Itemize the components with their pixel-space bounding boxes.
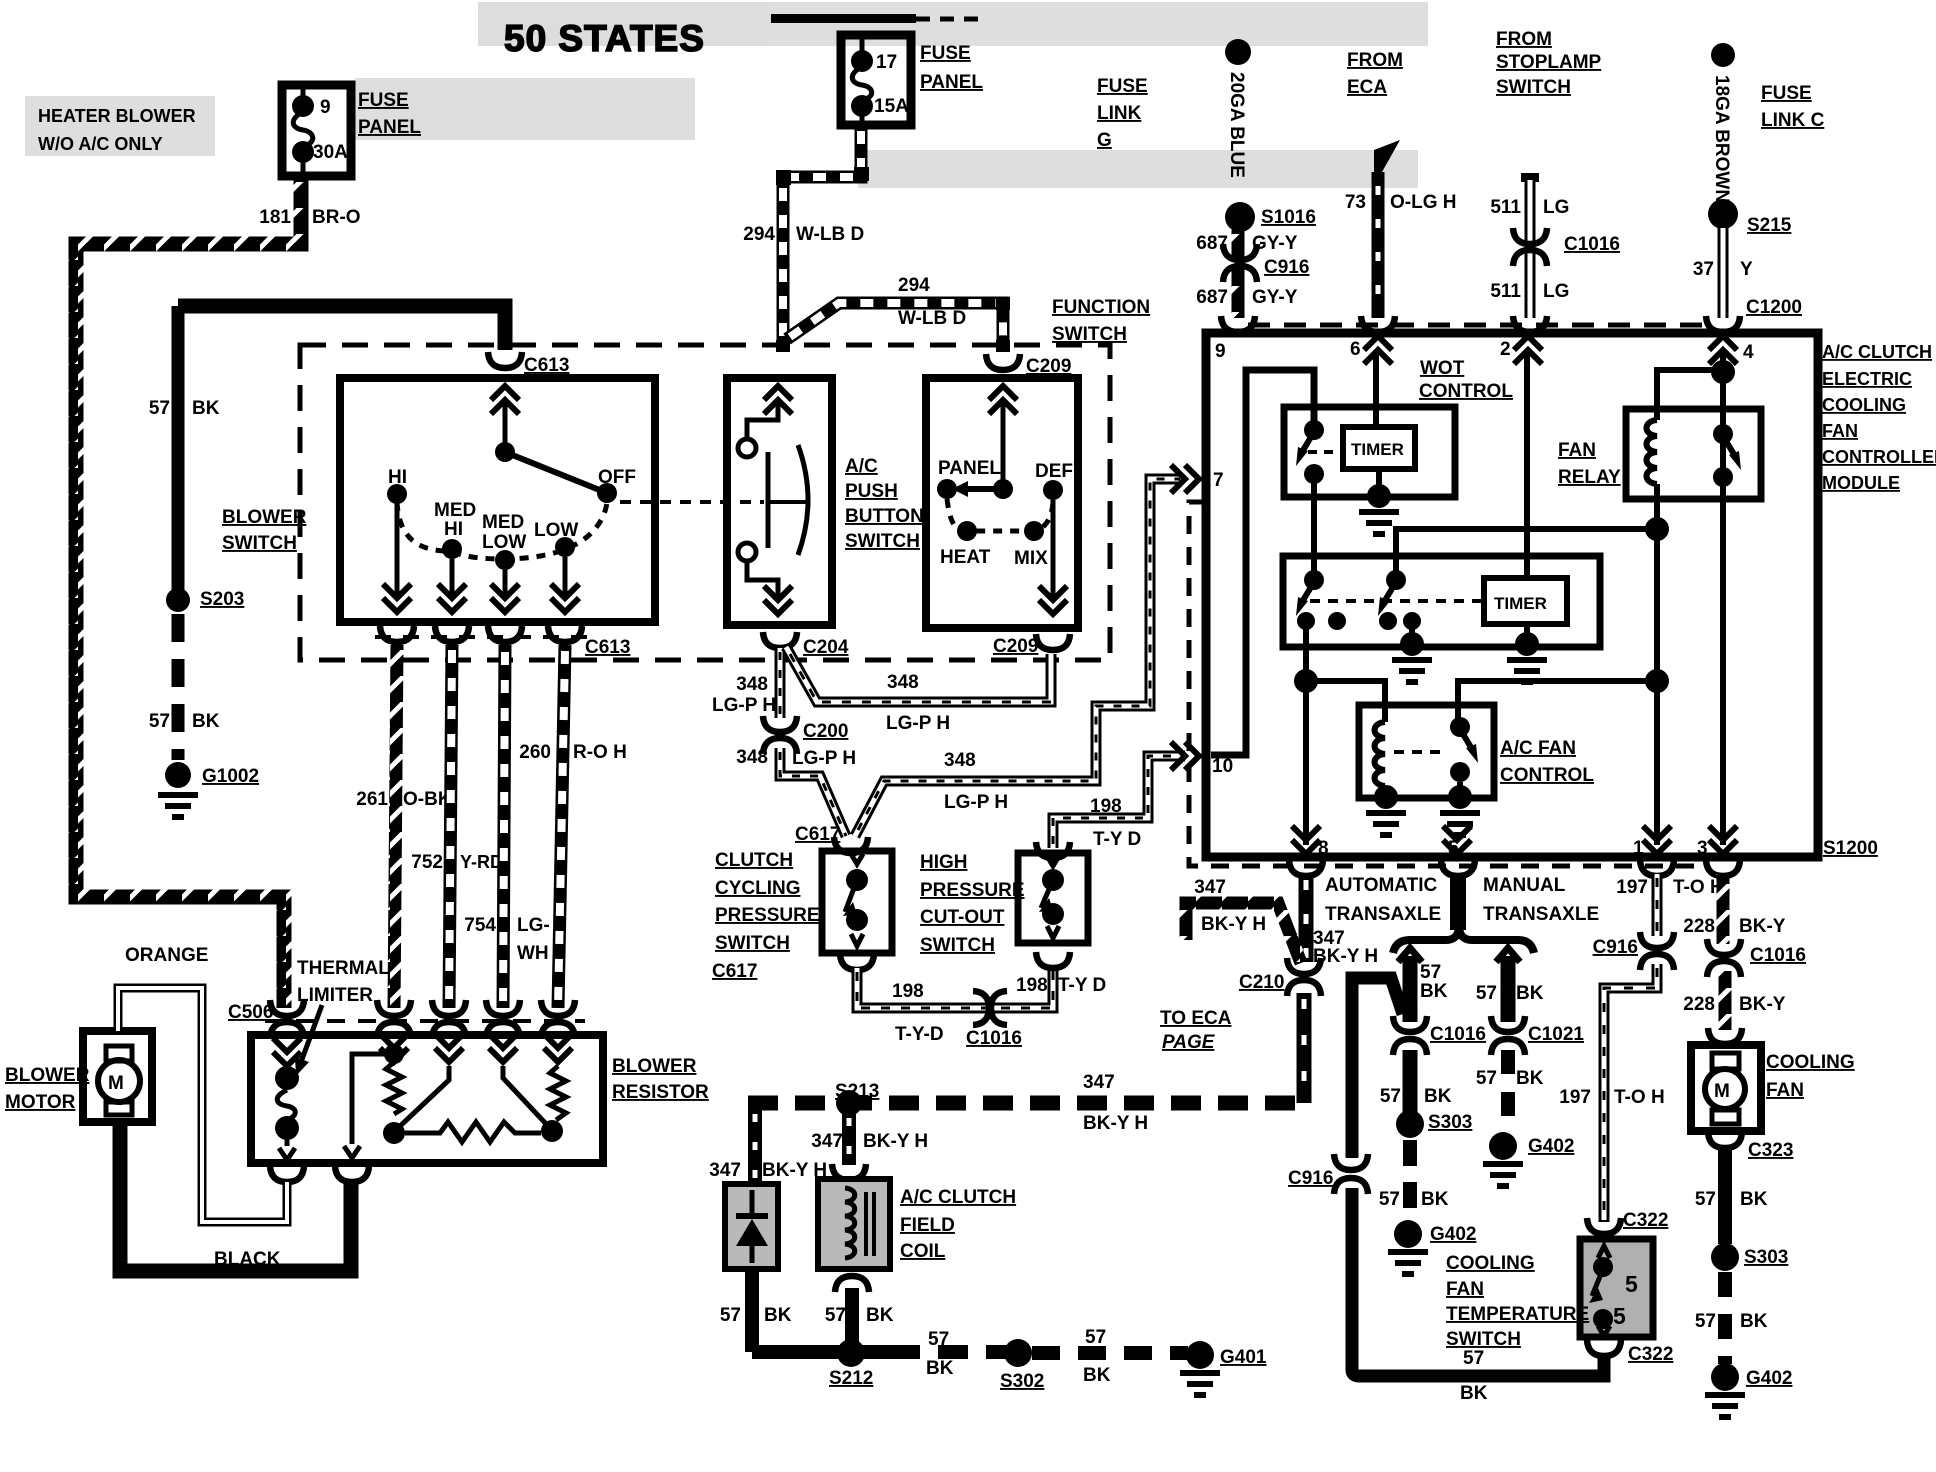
wire 511 LG from stoplamp switch to pin 2 — [1521, 173, 1539, 182]
svg-text:348: 348 — [887, 672, 919, 693]
wire 57 BK C916 to temperature switch — [1352, 1188, 1604, 1376]
svg-text:BLOWER: BLOWER — [222, 507, 307, 528]
svg-text:198: 198 — [892, 981, 924, 1002]
wire 348 LG-P H C200 to C617 split — [780, 748, 846, 836]
wire 57 BK bus from blower switch to C613 — [178, 306, 505, 350]
svg-text:511: 511 — [1490, 197, 1521, 218]
svg-text:MED: MED — [482, 512, 524, 533]
wire 348 LG-P H jumper C204 to C209 — [786, 647, 1051, 702]
connector C1016 (automatic) — [1393, 1016, 1427, 1032]
svg-text:LG-P H: LG-P H — [712, 695, 776, 716]
pin 8 rail — [1303, 621, 1309, 845]
function switch feed arrow — [989, 386, 1017, 414]
contact MIX — [1024, 521, 1044, 541]
svg-text:BK: BK — [1516, 1068, 1544, 1089]
svg-text:TIMER: TIMER — [1494, 594, 1547, 613]
svg-text:57: 57 — [1420, 962, 1441, 983]
connector C1016 (LG) — [1513, 228, 1547, 244]
high pressure cut-out switch box — [1018, 853, 1088, 943]
wire 347 BK-Y H C210 down to S213 run — [1297, 993, 1312, 1103]
svg-text:BK: BK — [1083, 1365, 1111, 1386]
wire 294 W-LB D branch to C209 — [787, 303, 1003, 352]
svg-text:C617: C617 — [712, 961, 757, 982]
svg-text:BUTTON: BUTTON — [845, 506, 924, 527]
connector C209 (bottom) — [1036, 634, 1070, 650]
svg-text:347: 347 — [1194, 877, 1226, 898]
fuse F2 element 17 / 15A — [851, 50, 873, 72]
svg-text:FAN: FAN — [1822, 421, 1858, 441]
svg-text:BLACK: BLACK — [214, 1249, 281, 1270]
svg-text:50 STATES: 50 STATES — [504, 18, 705, 59]
WOT switch — [1304, 420, 1324, 440]
wire 198 T-Y D HP switch to module pin 10 — [1053, 756, 1185, 848]
svg-text:TIMER: TIMER — [1351, 440, 1404, 459]
wire 260 R-O H — [558, 645, 565, 1008]
pin 5 connector — [1441, 860, 1475, 876]
svg-text:T-O H: T-O H — [1614, 1087, 1665, 1108]
timer 2 ground — [1524, 624, 1530, 642]
wire 57 BK dashed C1021 to G402 — [1501, 1050, 1515, 1134]
field coil connector (bottom) — [835, 1276, 869, 1292]
svg-text:TRANSAXLE: TRANSAXLE — [1325, 904, 1441, 925]
splice S1016 — [1225, 202, 1255, 232]
svg-text:HI: HI — [388, 467, 407, 488]
svg-text:HEATER BLOWER: HEATER BLOWER — [38, 106, 196, 126]
connector C209 (top) — [986, 354, 1020, 370]
push button actuator — [766, 452, 771, 548]
tap from med-low — [503, 1066, 548, 1126]
contact HEAT — [957, 521, 977, 541]
wire 754 LG-WH — [503, 645, 505, 1008]
feed link to second output — [352, 1054, 394, 1144]
ground G401 — [1186, 1341, 1214, 1369]
svg-text:M: M — [108, 1073, 124, 1094]
svg-text:FAN: FAN — [1766, 1080, 1804, 1101]
svg-text:BR-O: BR-O — [312, 207, 361, 228]
pin 3 connector — [1706, 860, 1740, 876]
svg-text:FUNCTION: FUNCTION — [1052, 297, 1150, 318]
contact OFF — [597, 483, 617, 503]
wire 228 BK-Y pin 3 to C1016 — [1717, 874, 1730, 944]
svg-text:C916: C916 — [1264, 257, 1309, 278]
svg-text:O-LG H: O-LG H — [1390, 192, 1457, 213]
svg-text:G1002: G1002 — [202, 766, 259, 787]
wire 57 BK ground loop to C916 and C322 — [1352, 978, 1403, 1158]
pin 1 connector — [1640, 860, 1674, 876]
contact HI — [387, 484, 407, 504]
svg-text:ORANGE: ORANGE — [125, 945, 208, 966]
svg-text:FAN: FAN — [1446, 1279, 1484, 1300]
svg-text:9: 9 — [320, 97, 331, 118]
svg-text:CONTROL: CONTROL — [1419, 381, 1513, 402]
fan relay coil — [1647, 420, 1658, 484]
clutch cycling switch contacts — [851, 854, 863, 864]
fan relay switch — [1713, 424, 1733, 444]
wire 57 BK dashed to G402 — [1718, 1272, 1732, 1364]
wire 347 BK-Y H branch to diode — [748, 1103, 762, 1182]
svg-text:BK: BK — [1424, 1086, 1452, 1107]
svg-text:GY-Y: GY-Y — [1252, 287, 1298, 308]
automatic branch arrow — [1398, 948, 1422, 962]
svg-text:BK: BK — [1420, 981, 1448, 1002]
dashed mechanical link OFF to A/C switch — [620, 500, 764, 504]
svg-text:9: 9 — [1215, 341, 1226, 362]
svg-text:754: 754 — [464, 915, 496, 936]
contact MED HI — [442, 539, 462, 559]
svg-text:T-Y D: T-Y D — [1093, 829, 1141, 850]
WOT control box — [1284, 407, 1455, 497]
wire 752 Y-RD — [449, 645, 452, 1008]
svg-text:G: G — [1097, 130, 1112, 151]
wire 197 T-O H pin 1 to C916 — [1652, 874, 1663, 936]
diode box — [725, 1184, 778, 1269]
svg-text:57: 57 — [825, 1305, 846, 1326]
svg-text:S215: S215 — [1747, 215, 1792, 236]
svg-text:57: 57 — [1695, 1189, 1716, 1210]
svg-text:BK: BK — [866, 1305, 894, 1326]
svg-text:SWITCH: SWITCH — [920, 935, 995, 956]
contact drop wires with arrows — [395, 504, 400, 596]
svg-text:AUTOMATIC: AUTOMATIC — [1325, 875, 1438, 896]
svg-text:PANEL: PANEL — [358, 117, 421, 138]
cooling fan motor box — [1691, 1045, 1761, 1131]
pin 6 connector — [1361, 316, 1395, 332]
svg-text:MOTOR: MOTOR — [5, 1092, 76, 1113]
rotary arc (dashed) — [397, 501, 607, 559]
svg-text:15A: 15A — [874, 96, 909, 117]
fan relay box — [1626, 409, 1761, 499]
svg-text:G402: G402 — [1430, 1224, 1476, 1245]
svg-text:73: 73 — [1345, 192, 1366, 213]
svg-text:5: 5 — [1625, 1271, 1638, 1297]
fuse panel F1 box — [282, 85, 351, 176]
svg-text:57: 57 — [1476, 1068, 1497, 1089]
pin 2 connector — [1513, 316, 1547, 332]
svg-text:CYCLING: CYCLING — [715, 878, 801, 899]
svg-text:G402: G402 — [1746, 1368, 1792, 1389]
svg-text:C613: C613 — [585, 637, 630, 658]
svg-text:57: 57 — [1379, 1189, 1400, 1210]
svg-text:PANEL: PANEL — [938, 458, 1001, 479]
svg-text:A/C CLUTCH: A/C CLUTCH — [900, 1187, 1016, 1208]
contact PANEL — [937, 479, 957, 499]
svg-text:C1021: C1021 — [1528, 1024, 1584, 1045]
svg-text:FIELD: FIELD — [900, 1215, 955, 1236]
splice S303 (cooling fan) — [1711, 1243, 1739, 1271]
wire 57 BK dashed S303 to G402 — [1403, 1140, 1417, 1222]
svg-text:LINK: LINK — [1097, 103, 1142, 124]
wire 57 BK dashed S203 to G1002 — [172, 614, 185, 760]
svg-text:WOT: WOT — [1420, 358, 1465, 379]
wire 57 BK automatic branch to C1016 — [1403, 956, 1418, 1022]
svg-text:10: 10 — [1212, 756, 1233, 777]
svg-text:DEF: DEF — [1035, 461, 1073, 482]
svg-text:347: 347 — [811, 1131, 843, 1152]
svg-text:T-Y-D: T-Y-D — [895, 1024, 944, 1045]
wire ORANGE resistor to motor — [118, 988, 287, 1222]
svg-text:752: 752 — [411, 852, 443, 873]
svg-text:C210: C210 — [1239, 972, 1284, 993]
svg-text:197: 197 — [1559, 1087, 1591, 1108]
svg-text:3: 3 — [1697, 838, 1708, 859]
connector C1021 — [1491, 1016, 1525, 1032]
svg-text:SWITCH: SWITCH — [1446, 1329, 1521, 1350]
svg-text:BK: BK — [1421, 1189, 1449, 1210]
cooling fan connector — [1708, 1028, 1742, 1044]
svg-text:197: 197 — [1616, 877, 1648, 898]
splice S203 — [166, 588, 190, 612]
svg-text:S303: S303 — [1744, 1247, 1788, 1268]
wire BLACK resistor to motor — [120, 1122, 351, 1271]
svg-text:FUSE: FUSE — [1761, 83, 1812, 104]
wire 57 BK ground run — [752, 1345, 890, 1359]
transaxle split brace — [1393, 929, 1534, 953]
svg-text:HEAT: HEAT — [940, 547, 991, 568]
svg-text:228: 228 — [1683, 994, 1715, 1015]
resistor R1 — [384, 1044, 404, 1064]
svg-text:S203: S203 — [200, 589, 244, 610]
blower resistor box — [251, 1035, 603, 1163]
pin 5 stub — [1450, 874, 1466, 930]
svg-text:T-Y D: T-Y D — [1058, 975, 1106, 996]
function switch box — [926, 378, 1078, 628]
coil tap to pin4 rail — [1657, 370, 1723, 420]
svg-text:S302: S302 — [1000, 1371, 1044, 1392]
blower switch feed arrow — [491, 386, 519, 414]
HP switch top connector — [1036, 842, 1070, 858]
wire 57 BK cooling fan to S303 — [1718, 1146, 1732, 1244]
wire 228 BK-Y C1016 to cooling fan — [1719, 971, 1732, 1030]
svg-text:ELECTRIC: ELECTRIC — [1822, 369, 1912, 389]
svg-text:BK: BK — [1516, 983, 1544, 1004]
svg-text:A/C: A/C — [845, 456, 878, 477]
svg-text:A/C FAN: A/C FAN — [1500, 738, 1576, 759]
svg-text:BK: BK — [764, 1305, 792, 1326]
wire 348 LG-P H C617 to module pin 7 — [855, 479, 1183, 836]
junction — [1645, 517, 1669, 541]
svg-text:HI: HI — [444, 519, 463, 540]
svg-text:BK: BK — [1740, 1189, 1768, 1210]
A/C fan coil — [1375, 722, 1386, 786]
clutch cycling pressure switch box — [822, 851, 892, 953]
svg-text:C613: C613 — [524, 355, 569, 376]
svg-text:S1016: S1016 — [1261, 207, 1316, 228]
pin 1 rail — [1654, 484, 1660, 845]
relay switch 2 ground — [1409, 621, 1415, 642]
svg-text:17: 17 — [876, 52, 897, 73]
svg-text:TO ECA: TO ECA — [1160, 1008, 1232, 1029]
ground G1002 — [165, 762, 191, 788]
ground G402 (automatic) — [1394, 1220, 1422, 1248]
svg-text:G402: G402 — [1528, 1136, 1574, 1157]
svg-text:LG-P H: LG-P H — [792, 748, 856, 769]
svg-text:ECA: ECA — [1347, 77, 1387, 98]
ground G402 (manual) — [1489, 1132, 1517, 1160]
wire 37 Y to pin 4 — [1718, 228, 1729, 318]
svg-text:LIMITER: LIMITER — [297, 985, 373, 1006]
svg-text:687: 687 — [1196, 287, 1228, 308]
relay switch 1 — [1304, 570, 1324, 590]
svg-text:FUSE: FUSE — [358, 90, 409, 111]
svg-text:S303: S303 — [1428, 1112, 1472, 1133]
connector C322 (bottom) — [1587, 1340, 1621, 1356]
rotary arc (dashed) — [947, 499, 1053, 531]
svg-text:C204: C204 — [803, 637, 849, 658]
wire 687 GY-Y to pin 9 — [1232, 230, 1245, 318]
svg-text:CONTROL: CONTROL — [1500, 765, 1594, 786]
svg-text:C322: C322 — [1628, 1344, 1673, 1365]
svg-text:SWITCH: SWITCH — [222, 533, 297, 554]
wire 348 LG-P H C204 to C200 — [775, 648, 786, 718]
A/C fan control box — [1359, 705, 1494, 798]
svg-text:S212: S212 — [829, 1368, 873, 1389]
resistor outputs — [270, 1166, 304, 1182]
svg-text:LG-: LG- — [517, 915, 550, 936]
pin 2 wire to timer 2 — [1524, 350, 1530, 578]
svg-text:FUSE: FUSE — [1097, 76, 1148, 97]
tap from med-hi — [398, 1066, 449, 1128]
svg-text:198: 198 — [1090, 796, 1122, 817]
svg-text:2: 2 — [1500, 339, 1511, 360]
pin 4 to pin 3 rail — [1720, 350, 1726, 845]
svg-text:SWITCH: SWITCH — [1496, 77, 1571, 98]
wire WOT switch to relay switch 1 — [1311, 474, 1317, 580]
entry arrows — [273, 1038, 301, 1066]
svg-text:C209: C209 — [1026, 356, 1071, 377]
svg-text:BK-Y H: BK-Y H — [1083, 1113, 1148, 1134]
splice S212 — [837, 1339, 865, 1367]
svg-text:HIGH: HIGH — [920, 852, 968, 873]
svg-text:294: 294 — [743, 224, 775, 245]
timer 2 box — [1484, 578, 1567, 624]
svg-text:347: 347 — [709, 1160, 741, 1181]
svg-text:347: 347 — [1083, 1072, 1115, 1093]
svg-text:RELAY: RELAY — [1558, 467, 1621, 488]
svg-text:G401: G401 — [1220, 1347, 1267, 1368]
svg-text:OFF: OFF — [598, 467, 636, 488]
pin 6 wire to timer 1 — [1373, 350, 1379, 427]
svg-text:LG: LG — [1543, 197, 1569, 218]
svg-text:FAN: FAN — [1558, 440, 1596, 461]
connector C323 — [1708, 1132, 1742, 1148]
connector C210 — [1287, 958, 1321, 974]
dashed TO ECA line from A/C switch — [1189, 502, 1705, 866]
relay logic box — [1283, 556, 1600, 647]
svg-text:Y-RD: Y-RD — [460, 852, 503, 872]
svg-text:57: 57 — [1380, 1086, 1401, 1107]
wire relay switch 2 to pin1 rail — [1396, 529, 1657, 580]
svg-text:BK: BK — [1460, 1383, 1488, 1404]
svg-text:LINK C: LINK C — [1761, 110, 1825, 131]
harness dashed line at resistor connectors — [265, 1019, 585, 1023]
svg-text:THERMAL: THERMAL — [297, 958, 390, 979]
contact MED LOW — [495, 550, 515, 570]
svg-text:BLOWER: BLOWER — [5, 1065, 90, 1086]
connector C613 (top) — [488, 352, 522, 368]
svg-text:PUSH: PUSH — [845, 481, 898, 502]
fuse F1 element 9 / 30A — [292, 95, 314, 117]
svg-text:C322: C322 — [1623, 1210, 1668, 1231]
svg-text:TRANSAXLE: TRANSAXLE — [1483, 904, 1599, 925]
wire 181 BR-O from fuse F1 down-left-down to C506 — [76, 176, 301, 1008]
svg-text:348: 348 — [736, 747, 768, 768]
HP switch bottom connector — [1036, 952, 1070, 968]
A/C push button switch box — [727, 378, 832, 625]
thermal limiter — [275, 1066, 299, 1090]
svg-text:SWITCH: SWITCH — [715, 933, 790, 954]
contact DEF — [1043, 480, 1063, 500]
blower switch box — [340, 378, 655, 622]
connector C617 (top) — [834, 837, 868, 853]
svg-text:M: M — [1714, 1081, 1730, 1102]
svg-text:MIX: MIX — [1014, 548, 1048, 569]
svg-text:W-LB D: W-LB D — [898, 308, 966, 329]
resistor R2 — [550, 1066, 566, 1120]
svg-text:57: 57 — [149, 398, 170, 419]
svg-text:MODULE: MODULE — [1822, 473, 1900, 493]
dashed harness line above module — [1248, 323, 1714, 328]
connector C617 (bottom) — [840, 954, 874, 970]
svg-text:BK-Y: BK-Y — [1739, 994, 1786, 1015]
svg-text:A/C CLUTCH: A/C CLUTCH — [1822, 342, 1932, 362]
svg-text:MED: MED — [434, 500, 476, 521]
blower motor box — [83, 1031, 152, 1122]
relay switch 2 — [1386, 570, 1406, 590]
svg-text:S1200: S1200 — [1823, 838, 1878, 859]
svg-text:BLOWER: BLOWER — [612, 1056, 697, 1077]
svg-text:C1200: C1200 — [1746, 297, 1802, 318]
svg-text:294: 294 — [898, 275, 930, 296]
wire 57 BK S302 to G401 — [1032, 1346, 1188, 1360]
svg-text:PRESSURE: PRESSURE — [715, 905, 820, 926]
svg-text:181: 181 — [259, 207, 291, 228]
svg-text:FUSE: FUSE — [920, 43, 971, 64]
wire 347 BK-Y H S213 to field coil — [842, 1110, 856, 1165]
splice S302 — [1004, 1339, 1032, 1367]
thermal limiter pointer arrow — [301, 1005, 322, 1062]
svg-text:BK: BK — [926, 1358, 954, 1379]
wire 347 BK-Y H stub to ECA — [1186, 903, 1301, 963]
svg-text:PAGE: PAGE — [1162, 1032, 1216, 1053]
svg-text:57: 57 — [1476, 983, 1497, 1004]
svg-text:5: 5 — [1613, 1303, 1626, 1329]
svg-text:20GA BLUE: 20GA BLUE — [1226, 72, 1247, 178]
svg-text:C617: C617 — [795, 824, 840, 845]
svg-text:W-LB D: W-LB D — [796, 224, 864, 245]
dashed coil-switch link — [1394, 750, 1448, 754]
wire 197 T-O H C916 to C322 — [1604, 964, 1657, 1222]
svg-text:RESISTOR: RESISTOR — [612, 1082, 709, 1103]
svg-text:BK-Y H: BK-Y H — [1201, 914, 1266, 935]
svg-text:57: 57 — [928, 1329, 949, 1350]
svg-text:6: 6 — [1350, 339, 1361, 360]
svg-text:348: 348 — [736, 674, 768, 695]
wire 347 BK-Y H pin 8 to C210 — [1299, 874, 1314, 962]
DEF drop wire — [1051, 500, 1056, 598]
svg-text:COOLING: COOLING — [1822, 395, 1906, 415]
svg-text:T-O H: T-O H — [1673, 877, 1724, 898]
connector C1016 (in 198 wire) — [973, 991, 989, 1025]
splice S215 — [1708, 199, 1738, 229]
wire 294 W-LB D from fuse F2 down to C204 — [783, 125, 861, 352]
connector C916 (pin 1) — [1640, 932, 1674, 948]
svg-text:348: 348 — [944, 750, 976, 771]
svg-text:57: 57 — [149, 711, 170, 732]
connector C1016 (BK-Y) — [1707, 939, 1741, 955]
wire 73 O-LG H from ECA to pin 6 — [1374, 140, 1400, 182]
svg-text:4: 4 — [1743, 342, 1754, 363]
wire 57 BK C1016 to S303 — [1403, 1050, 1418, 1115]
